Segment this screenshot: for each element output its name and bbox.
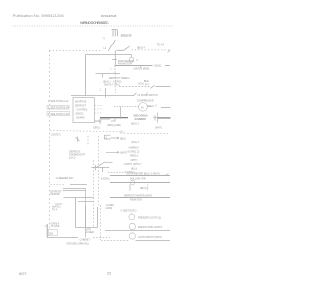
svg-text:ADAPTIVE: ADAPTIVE xyxy=(75,101,87,104)
svg-text:TO 4-5: TO 4-5 xyxy=(157,44,165,46)
svg-text:FAN MOTOR: FAN MOTOR xyxy=(118,62,132,65)
svg-text:BOARD: BOARD xyxy=(77,117,86,120)
svg-text:(WHT) 2: (WHT) 2 xyxy=(52,207,61,209)
svg-text:DOOR HEATER (BLK) 3 (WHT): DOOR HEATER (BLK) 3 (WHT) xyxy=(127,173,160,176)
svg-text:DEFROST HEATER (WHT): DEFROST HEATER (WHT) xyxy=(124,194,152,197)
svg-text:RUN CAPACITOR: RUN CAPACITOR xyxy=(135,118,147,121)
svg-text:1 FREEZER FAN: 1 FREEZER FAN xyxy=(56,177,74,180)
svg-text:TO GND: TO GND xyxy=(51,226,60,228)
svg-text:(YEL): (YEL) xyxy=(138,83,144,85)
svg-text:OVERLOAD RELAY: OVERLOAD RELAY xyxy=(133,115,148,118)
svg-text:CONTROL: CONTROL xyxy=(77,109,89,111)
svg-text:FRESH FOOD LIGHTS: FRESH FOOD LIGHTS xyxy=(138,227,162,229)
svg-text:WIRING SCHEMATIC: WIRING SCHEMATIC xyxy=(80,20,109,25)
svg-text:22: 22 xyxy=(107,271,111,276)
svg-text:(YEL) 3: (YEL) 3 xyxy=(131,142,140,144)
svg-text:(GRN): (GRN) xyxy=(106,208,113,210)
svg-text:(BLK) 1 3 (ORG): (BLK) 1 3 (ORG) xyxy=(103,81,122,83)
svg-text:8 (ORG) 22: 8 (ORG) 22 xyxy=(128,152,141,154)
svg-text:N.C.: N.C. xyxy=(144,79,149,83)
svg-text:(ORG) 5 (RED): (ORG) 5 (RED) xyxy=(134,69,150,71)
svg-text:FREEZER LIGHTS (2): FREEZER LIGHTS (2) xyxy=(138,217,161,219)
svg-text:(BLK): (BLK) xyxy=(120,139,126,141)
svg-text:LIGHT SWITCH (WHT): LIGHT SWITCH (WHT) xyxy=(138,237,162,239)
svg-text:(WHT) 4 (YEL): (WHT) 4 (YEL) xyxy=(104,85,120,87)
svg-text:CABINET: CABINET xyxy=(80,239,91,242)
svg-text:FRS6HR5HB: FRS6HR5HB xyxy=(101,14,117,18)
svg-text:(NC): (NC) xyxy=(145,84,150,86)
svg-text:( ): ( ) xyxy=(103,38,105,40)
svg-text:450W 575V: 450W 575V xyxy=(130,199,142,201)
svg-text:(WHT): (WHT) xyxy=(120,153,127,155)
svg-text:1 (BLK): 1 (BLK) xyxy=(154,65,162,67)
svg-text:6/07: 6/07 xyxy=(19,271,27,276)
svg-text:AUGER: AUGER xyxy=(86,231,95,234)
svg-text:GROUND (GRN/YEL): GROUND (GRN/YEL) xyxy=(67,244,90,246)
svg-text:(BLU): (BLU) xyxy=(131,169,137,171)
svg-text:TO 4: TO 4 xyxy=(52,209,58,211)
svg-text:1 NOTE 5: 1 NOTE 5 xyxy=(51,134,62,136)
svg-text:(L5-2): (L5-2) xyxy=(69,157,76,160)
svg-text:1 (WHT) (WHT) 7: 1 (WHT) (WHT) 7 xyxy=(124,164,143,166)
svg-text:(BLK) 4: (BLK) 4 xyxy=(137,47,146,49)
svg-text:(BLK) 6: (BLK) 6 xyxy=(140,188,149,190)
svg-text:COMPRESSOR: COMPRESSOR xyxy=(137,101,154,103)
svg-text:8 (ORG): 8 (ORG) xyxy=(101,178,110,180)
svg-text:(EADC): (EADC) xyxy=(76,113,84,116)
svg-text:JBX: JBX xyxy=(49,233,54,235)
svg-text:(GRN): (GRN) xyxy=(95,121,102,123)
svg-text:2: 2 xyxy=(156,106,158,108)
svg-text:1. SEE NOTE A-12: 1. SEE NOTE A-12 xyxy=(48,100,69,103)
svg-text:FZ DOOR SWITCH: FZ DOOR SWITCH xyxy=(138,95,158,97)
svg-text:(WHT): (WHT) xyxy=(131,160,138,162)
svg-text:2. SEE NOTE B-34: 2. SEE NOTE B-34 xyxy=(48,107,70,110)
svg-text:L1: L1 xyxy=(104,48,107,50)
svg-text:DEFROST: DEFROST xyxy=(75,105,87,107)
svg-text:M: M xyxy=(141,105,143,109)
svg-text:1: 1 xyxy=(100,90,102,92)
svg-text:(GRN) 8: (GRN) 8 xyxy=(51,223,60,225)
svg-text:DEFROST: DEFROST xyxy=(51,192,63,194)
svg-text:4 (BRN) 6: 4 (BRN) 6 xyxy=(129,148,140,150)
svg-text:(ORG): (ORG) xyxy=(93,127,100,129)
svg-text:(GRN) (GRN): (GRN) (GRN) xyxy=(107,125,121,127)
svg-text:1: 1 xyxy=(110,69,112,71)
svg-text:SERVICE CORD: SERVICE CORD xyxy=(121,36,132,38)
svg-text:(WHT): (WHT) xyxy=(155,127,162,129)
svg-text:(BLK) 3: (BLK) 3 xyxy=(131,124,140,126)
svg-text:HEATER: HEATER xyxy=(51,193,60,196)
svg-text:DEFROST TIMER 2: DEFROST TIMER 2 xyxy=(109,78,130,80)
svg-text:3. SEE NOTE C-56: 3. SEE NOTE C-56 xyxy=(48,113,70,116)
svg-text:4. SEE NOTE 2: 4. SEE NOTE 2 xyxy=(121,210,138,212)
svg-text:(RED) 2: (RED) 2 xyxy=(130,156,139,158)
svg-text:5: 5 xyxy=(137,60,139,62)
svg-text:Publication No. 5995421206: Publication No. 5995421206 xyxy=(13,14,64,18)
